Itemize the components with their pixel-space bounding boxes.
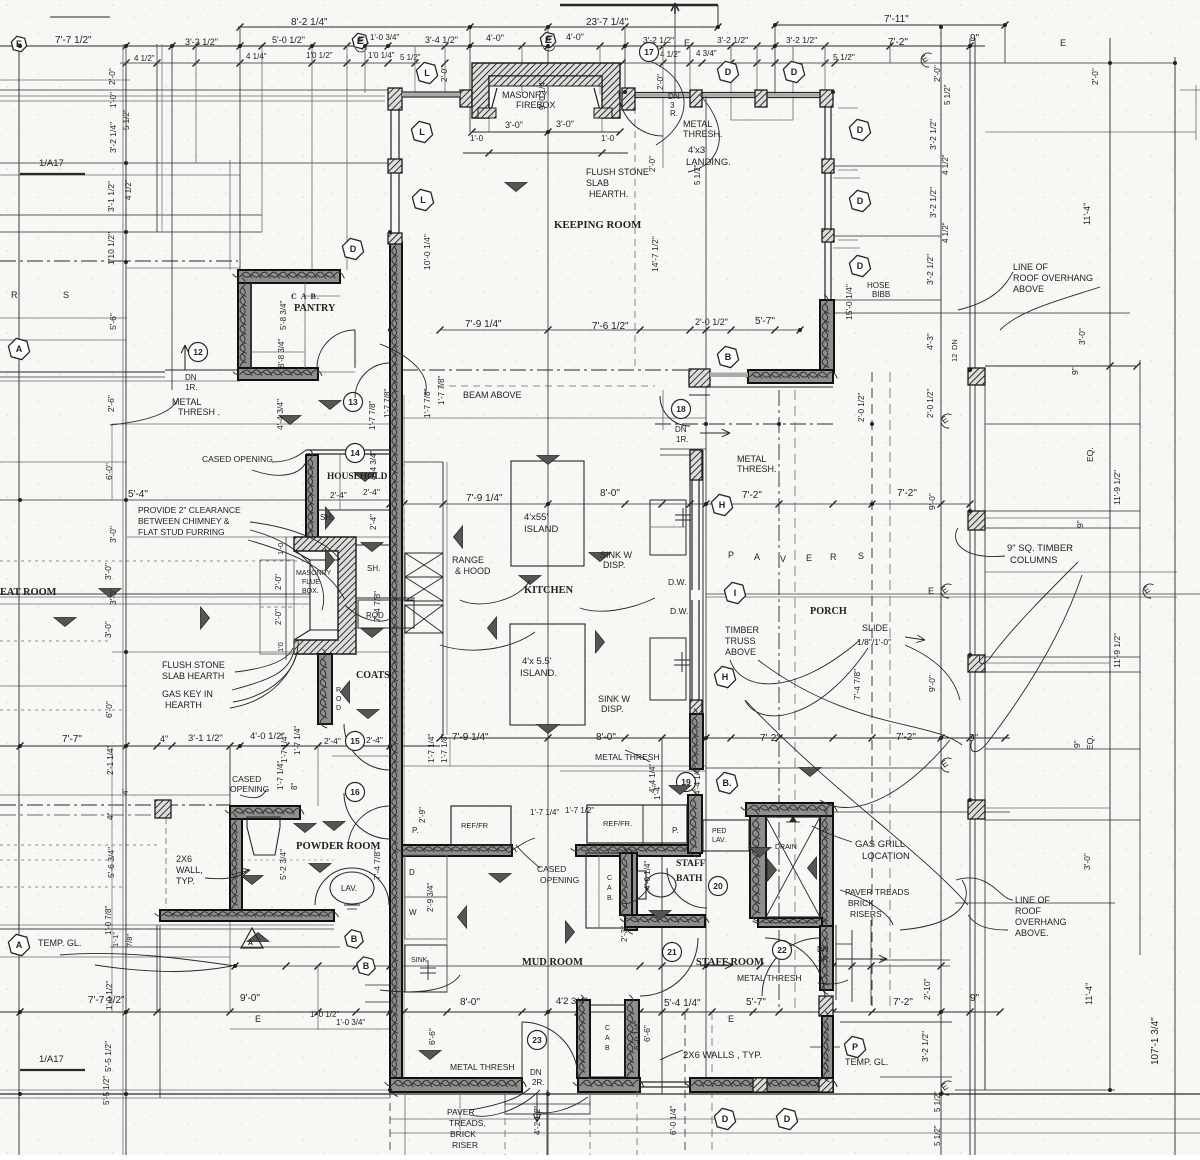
porch nw step	[689, 394, 710, 396]
svg-text:11'-4": 11'-4"	[1082, 203, 1092, 225]
wire h48	[0, 928, 160, 930]
svg-text:2'-4": 2'-4"	[330, 490, 347, 500]
svg-text:16: 16	[350, 787, 360, 797]
arrow hatch key	[230, 870, 250, 875]
shower left wall	[750, 816, 766, 918]
junction 1	[124, 44, 128, 48]
junction 49	[968, 509, 972, 513]
door arc staffroom	[640, 938, 698, 996]
svg-text:7'-2": 7'-2"	[897, 488, 917, 499]
svg-text:FLUSH STONE: FLUSH STONE	[586, 167, 649, 177]
svg-text:1'-0: 1'-0	[470, 134, 484, 143]
wire h86	[0, 844, 160, 846]
svg-text:5'-0 1/2": 5'-0 1/2"	[272, 35, 305, 45]
stub 8	[444, 46, 446, 63]
svg-text:TRUSS: TRUSS	[725, 636, 756, 646]
wire h30	[706, 593, 1200, 595]
svg-text:HOSE: HOSE	[867, 281, 890, 290]
porch ne dim line	[985, 365, 1137, 367]
mud interior line	[446, 855, 448, 992]
wire h54	[0, 1011, 1000, 1013]
svg-text:E: E	[255, 1014, 261, 1024]
bottom gray line	[390, 1132, 1200, 1134]
wire v29	[824, 46, 826, 92]
hex marker H15	[714, 666, 735, 687]
elev marker 20	[309, 864, 331, 873]
svg-text:REF/FR: REF/FR	[461, 821, 489, 830]
circle marker 20	[709, 877, 728, 896]
leader2 11	[840, 890, 893, 925]
svg-text:3'-2 1/2": 3'-2 1/2"	[928, 119, 938, 150]
wire v61	[851, 930, 853, 1002]
svg-text:DN: DN	[185, 373, 197, 382]
svg-text:RANGE: RANGE	[452, 555, 484, 565]
svg-text:1'-7 1/4": 1'-7 1/4"	[427, 734, 436, 763]
wire h15	[440, 329, 800, 331]
left extra v	[111, 746, 113, 1012]
wire v3	[161, 44, 163, 232]
entry post1	[622, 88, 635, 110]
wire h64	[0, 79, 130, 81]
svg-text:2'-0": 2'-0"	[648, 156, 657, 172]
wire v60	[984, 1012, 986, 1090]
svg-text:BRICK: BRICK	[450, 1129, 476, 1139]
wire v28	[792, 46, 794, 120]
wire h69	[833, 235, 941, 237]
wire h3	[0, 45, 985, 47]
svg-text:7'-9 1/4": 7'-9 1/4"	[465, 319, 502, 330]
leader2 2	[235, 648, 293, 672]
leader2 17	[979, 562, 1078, 664]
junction 50	[968, 653, 972, 657]
leader3 1	[758, 660, 962, 745]
svg-text:9": 9"	[1072, 740, 1082, 748]
svg-text:P: P	[728, 550, 734, 560]
svg-text:CASED: CASED	[537, 864, 566, 874]
bottom dash 637	[636, 1090, 638, 1155]
svg-text:1'0 1/2": 1'0 1/2"	[306, 51, 333, 60]
pantry shelves	[250, 283, 252, 368]
leader 10	[248, 540, 345, 600]
svg-text:18: 18	[676, 404, 686, 414]
svg-text:CASED: CASED	[232, 774, 261, 784]
elev marker 12	[488, 617, 497, 639]
wire v39	[1139, 360, 1141, 955]
range box1	[405, 553, 443, 577]
svg-text:DISP.: DISP.	[603, 560, 625, 570]
svg-text:5'-8 3/4": 5'-8 3/4"	[279, 301, 288, 330]
svg-text:23'-7 1/4": 23'-7 1/4"	[586, 17, 629, 28]
svg-text:BOX.: BOX.	[302, 588, 319, 595]
hex marker E2	[540, 32, 555, 47]
wire h32	[112, 651, 390, 653]
svg-text:4 1/2": 4 1/2"	[941, 154, 950, 175]
staff bottom wall	[690, 1078, 833, 1092]
stub 1	[156, 46, 158, 63]
leader 12	[230, 640, 298, 708]
junction 59	[704, 502, 708, 506]
svg-text:PED: PED	[712, 828, 726, 835]
junction 52	[831, 90, 835, 94]
timber col 4	[968, 800, 985, 819]
svg-text:2X6 WALLS , TYP.: 2X6 WALLS , TYP.	[683, 1050, 762, 1061]
svg-text:METAL THRESH: METAL THRESH	[737, 973, 802, 983]
junction 12	[18, 744, 22, 748]
stub 12	[689, 46, 691, 63]
svg-text:3'-0": 3'-0"	[103, 621, 113, 638]
dn3r lines	[836, 943, 852, 945]
svg-text:2X6: 2X6	[176, 854, 192, 864]
svg-text:A: A	[16, 344, 23, 354]
arrow dn12	[184, 345, 186, 370]
svg-text:9": 9"	[970, 33, 980, 44]
junction 42	[388, 1088, 392, 1092]
junction 7	[468, 44, 472, 48]
wire h4	[120, 62, 420, 64]
svg-text:3'-2 1/2": 3'-2 1/2"	[786, 35, 817, 45]
kitchen counter dash	[449, 738, 451, 766]
entry post4	[820, 90, 833, 107]
junction 16	[18, 1010, 22, 1014]
junction 24	[388, 328, 392, 332]
svg-text:15: 15	[350, 736, 360, 746]
wire v35	[974, 38, 976, 1155]
svg-text:10'-0 1/4": 10'-0 1/4"	[422, 234, 432, 270]
range box3	[405, 605, 443, 633]
wire v15	[444, 60, 446, 93]
wire v1	[125, 44, 127, 1155]
leader2 6	[516, 845, 540, 868]
leader3 3	[440, 632, 535, 650]
svg-text:P.: P.	[672, 826, 679, 835]
wire h43	[833, 811, 1010, 813]
leader2 14	[205, 870, 248, 879]
hex marker E0	[11, 36, 26, 51]
svg-text:PANTRY: PANTRY	[294, 303, 336, 314]
svg-text:4'x 5.5': 4'x 5.5'	[522, 656, 552, 667]
wire v7	[261, 44, 263, 232]
svg-text:5'-7": 5'-7"	[746, 997, 766, 1008]
svg-text:OPENING: OPENING	[230, 784, 269, 794]
wire v40	[1174, 57, 1176, 1155]
wire v62	[835, 925, 837, 1000]
junction 32	[1003, 23, 1007, 27]
leader3 5	[508, 838, 535, 853]
junction 55	[1173, 61, 1177, 65]
svg-text:1/A17: 1/A17	[39, 1054, 64, 1065]
wire h66	[731, 119, 793, 121]
svg-text:D: D	[336, 705, 341, 712]
svg-text:1'-0: 1'-0	[601, 134, 615, 143]
svg-text:SLAB: SLAB	[586, 178, 609, 188]
wire v19	[624, 27, 626, 95]
svg-text:D: D	[784, 1114, 791, 1124]
junction 5	[363, 44, 367, 48]
elev marker 1	[201, 607, 210, 629]
svg-text:7'-9 1/4": 7'-9 1/4"	[452, 732, 489, 743]
svg-text:2'-0": 2'-0"	[274, 574, 283, 590]
bath door arc	[667, 868, 707, 908]
wire h29	[0, 596, 310, 598]
kitchen east window1	[691, 480, 693, 590]
wire h87	[0, 886, 126, 888]
elev marker 32	[749, 848, 771, 857]
porch north wood	[748, 370, 833, 383]
junction 18	[388, 1010, 392, 1014]
elev marker 26	[649, 911, 671, 920]
porch nw post	[689, 369, 710, 387]
hex marker P22	[844, 1036, 865, 1057]
svg-text:5'-6 3/4": 5'-6 3/4"	[106, 847, 116, 878]
mud top wall a	[402, 845, 512, 856]
range box2	[405, 577, 443, 601]
svg-text:LINE OF: LINE OF	[1013, 262, 1049, 272]
firebox stub right	[594, 108, 612, 118]
wire h51	[235, 965, 760, 967]
wire h72	[833, 312, 1130, 314]
mud east wall top	[625, 853, 637, 930]
svg-text:4'-0": 4'-0"	[486, 33, 504, 43]
wire v50	[521, 60, 523, 93]
svg-text:METAL THRESH: METAL THRESH	[450, 1062, 515, 1072]
svg-text:EQ.: EQ.	[1085, 735, 1095, 750]
wire h81	[985, 571, 1177, 573]
toilet 1	[247, 817, 280, 855]
svg-text:12: 12	[193, 347, 203, 357]
svg-text:6'-0": 6'-0"	[104, 701, 114, 718]
junction 20	[939, 1010, 943, 1014]
svg-text:2'-10": 2'-10"	[922, 978, 932, 1000]
leader 5	[730, 640, 860, 684]
wire h84	[706, 767, 941, 769]
svg-text:5'-4 1/4": 5'-4 1/4"	[664, 998, 701, 1009]
svg-text:2'-3": 2'-3"	[620, 926, 629, 942]
svg-text:LAV.: LAV.	[341, 884, 357, 893]
junction 19	[546, 1010, 550, 1014]
svg-text:B.: B.	[723, 778, 732, 788]
wire h70	[833, 247, 860, 249]
wire h10	[0, 214, 262, 216]
wire h21	[660, 448, 706, 450]
svg-text:20: 20	[713, 881, 723, 891]
svg-text:KEEPING ROOM: KEEPING ROOM	[554, 219, 641, 231]
svg-text:A: A	[605, 1035, 610, 1042]
mud cab 2	[590, 1005, 625, 1077]
svg-text:SINK: SINK	[411, 957, 428, 964]
svg-text:4'-4 3/4": 4'-4 3/4"	[275, 399, 285, 430]
entry wall band	[635, 92, 825, 94]
wire h42	[0, 814, 160, 816]
svg-text:14: 14	[350, 448, 360, 458]
door arc 16b	[348, 806, 390, 848]
cab dash band	[403, 500, 405, 553]
junction 47	[546, 1092, 550, 1096]
leader2 8	[380, 975, 460, 992]
svg-text:3'-2 1/4": 3'-2 1/4"	[108, 122, 118, 153]
leader2 12	[900, 880, 966, 930]
svg-text:2'-0": 2'-0"	[107, 68, 117, 85]
junction 35	[124, 230, 128, 234]
svg-text:8'-0": 8'-0"	[596, 732, 616, 743]
circle marker 22	[773, 941, 792, 960]
stub 10	[599, 46, 601, 63]
svg-text:6'-6": 6'-6"	[427, 1028, 437, 1045]
wire h6	[0, 89, 390, 91]
svg-text:5'-7": 5'-7"	[755, 316, 775, 327]
pantry door opening	[318, 371, 355, 373]
svg-text:B: B	[605, 1045, 610, 1052]
svg-text:DRAIN: DRAIN	[775, 844, 797, 851]
wire v47	[661, 738, 663, 1094]
wire v21	[674, 3, 676, 95]
svg-text:5'-5 1/2": 5'-5 1/2"	[103, 1041, 113, 1072]
wire h77	[165, 369, 240, 371]
wire h55	[840, 1021, 952, 1023]
bath west wall	[620, 853, 632, 915]
stub 0	[125, 46, 127, 63]
household shelf	[318, 509, 390, 511]
wire v32	[889, 46, 891, 63]
svg-text:2'-4": 2'-4"	[324, 736, 341, 746]
leader2 9	[60, 953, 235, 966]
entry post3	[755, 90, 767, 107]
wire v5	[195, 44, 197, 163]
elev marker 2	[279, 416, 301, 425]
svg-text:5 1/2": 5 1/2"	[933, 1125, 942, 1146]
timber col 2	[968, 511, 985, 530]
wire h20	[985, 423, 1140, 425]
pantry door arc	[317, 330, 355, 368]
elev marker 33	[54, 618, 76, 627]
svg-text:DN: DN	[668, 92, 680, 101]
wire h65	[0, 95, 385, 97]
junction 44	[939, 1092, 943, 1096]
svg-text:3'-0": 3'-0"	[108, 588, 118, 605]
wire v63	[414, 60, 416, 93]
bath south wall	[625, 915, 705, 927]
wire v22	[689, 46, 691, 107]
wire h45	[0, 859, 112, 861]
svg-text:1/A17: 1/A17	[39, 158, 64, 169]
leader3 2	[905, 645, 960, 700]
svg-text:BETWEEN CHIMNEY &: BETWEEN CHIMNEY &	[138, 516, 230, 526]
svg-text:R.: R.	[670, 109, 678, 118]
svg-text:6'-0": 6'-0"	[104, 463, 114, 480]
flue inner	[294, 551, 338, 640]
elev marker 11	[454, 526, 463, 548]
svg-text:S: S	[63, 290, 69, 300]
coats bottom	[318, 723, 332, 725]
wire v31	[871, 372, 873, 1012]
dn3r arrow	[836, 958, 887, 960]
wire v14	[403, 395, 405, 1090]
junction 43	[1108, 1088, 1112, 1092]
svg-text:3'-0": 3'-0"	[505, 120, 523, 130]
mud west wall2	[577, 1000, 590, 1078]
wire h62	[20, 173, 85, 175]
junction 0	[18, 44, 22, 48]
svg-text:COLUMNS: COLUMNS	[1010, 555, 1058, 566]
svg-text:TEMP. GL.: TEMP. GL.	[845, 1057, 888, 1067]
right col connector	[985, 517, 1110, 519]
wire v8	[159, 925, 161, 1098]
staff east post	[819, 996, 833, 1016]
ped lav box	[703, 820, 749, 851]
junction 45	[124, 1092, 128, 1096]
elev marker 27	[247, 933, 269, 942]
svg-text:TREADS,: TREADS,	[449, 1118, 486, 1128]
household left wall	[306, 455, 318, 545]
steps side dash	[459, 1094, 461, 1130]
powder nw block	[155, 800, 171, 818]
svg-text:5'-4": 5'-4"	[128, 489, 148, 500]
svg-text:9'-0": 9'-0"	[927, 675, 937, 692]
junction 40	[704, 964, 708, 968]
wire v33	[940, 27, 942, 1155]
stub 16	[824, 46, 826, 63]
hex marker B16	[717, 346, 738, 367]
svg-text:SH.: SH.	[367, 564, 380, 573]
tick row 9	[237, 24, 244, 31]
junction 34	[546, 25, 550, 29]
svg-text:RISER: RISER	[452, 1140, 478, 1150]
svg-text:FIREBOX: FIREBOX	[516, 100, 556, 110]
wire v55	[229, 747, 231, 1012]
elev marker 29	[799, 768, 821, 777]
stub 11	[662, 46, 664, 63]
leader 9	[252, 462, 306, 475]
svg-text:MUD ROOM: MUD ROOM	[522, 957, 583, 968]
svg-text:4': 4'	[121, 789, 130, 795]
svg-text:15'-0 1/4": 15'-0 1/4"	[844, 284, 854, 320]
lav taps	[344, 904, 360, 906]
svg-text:3R.: 3R.	[818, 955, 830, 964]
wire h61	[0, 1089, 390, 1091]
wall west post2	[388, 159, 402, 173]
elev marker 13	[519, 576, 541, 585]
svg-text:7'-2": 7'-2"	[888, 37, 908, 48]
powder top wall	[230, 806, 300, 819]
shower top wall	[746, 803, 833, 816]
wire h35	[0, 685, 127, 687]
east wall window1	[824, 107, 826, 159]
svg-text:D: D	[857, 261, 864, 271]
svg-text:5 1/2": 5 1/2"	[943, 84, 952, 105]
wire v53	[547, 96, 549, 132]
elev marker 24	[566, 921, 575, 943]
wire h16	[402, 369, 700, 371]
svg-text:SINK W: SINK W	[598, 694, 631, 704]
sill lines east	[838, 169, 858, 171]
wire v64	[599, 63, 601, 95]
svg-text:11'-9 1/2": 11'-9 1/2"	[1112, 470, 1122, 505]
hex marker D9	[783, 61, 804, 82]
circle marker 21	[663, 943, 682, 962]
svg-text:11'-4": 11'-4"	[1084, 983, 1094, 1005]
svg-text:1'-7 1/4": 1'-7 1/4"	[276, 761, 285, 790]
svg-text:THRESH .: THRESH .	[178, 407, 220, 417]
wall west window top	[390, 110, 392, 159]
junction 41	[233, 964, 237, 968]
svg-text:5 1/2": 5 1/2"	[833, 52, 855, 62]
leader 0	[652, 62, 684, 145]
stub 2	[195, 46, 197, 63]
tick row 7	[232, 963, 239, 970]
wire h12	[0, 260, 238, 262]
wire h63	[50, 16, 110, 18]
stub 9	[521, 46, 523, 63]
wire h39	[390, 765, 706, 767]
